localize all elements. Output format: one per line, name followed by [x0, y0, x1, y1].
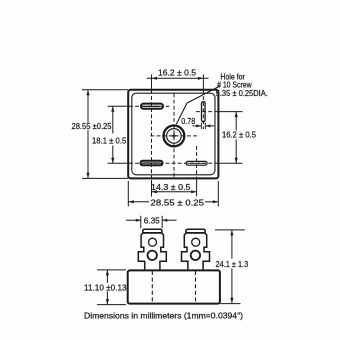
svg-text:28.55 ± 0.25: 28.55 ± 0.25: [151, 197, 205, 207]
terminal centerlines in body: [151, 271, 153, 303]
centerline horizontal hole: [151, 135, 200, 137]
dim left 18.1 line: [112, 106, 114, 163]
dim left 28.55 line: [82, 90, 128, 179]
labels side view: [84, 215, 249, 292]
dim 11.10: [97, 270, 126, 305]
svg-text:5.35 ± 0.25DIA.: 5.35 ± 0.25DIA.: [216, 89, 268, 98]
svg-text:0.78: 0.78: [181, 117, 195, 126]
mounting hole: [164, 125, 185, 146]
leader line to hole: [176, 86, 220, 125]
centerline vertical through bottom-right slot: [196, 146, 198, 197]
terminal slot bottom-left: [141, 161, 163, 166]
dim top 16.2 line: [147, 77, 209, 79]
dim right 16.2 line: [235, 112, 237, 164]
terminal slot bottom-right: [186, 161, 207, 165]
top 16.2 arrows: [152, 77, 158, 80]
centerline vertical through left terminals: [151, 75, 153, 197]
dim bottom 28.55 lines: [128, 181, 218, 207]
24.1 arrows: [230, 230, 233, 236]
terminal slot top-left: [141, 104, 163, 109]
terminal slot top-right (vertical): [202, 102, 206, 122]
11.10 arrows: [106, 270, 109, 276]
bottom 28.55 arrows: [128, 200, 134, 203]
svg-text:16.2 ± 0.5: 16.2 ± 0.5: [158, 67, 196, 77]
inner face edge: [132, 93, 215, 175]
6.35 arrows: [136, 219, 141, 222]
svg-text:Dimensions in millimeters (1mm: Dimensions in millimeters (1mm=0.0394″): [84, 311, 243, 321]
svg-text:11.10 ±0.13: 11.10 ±0.13: [84, 284, 127, 293]
terminal left (side view): [138, 229, 166, 270]
centerline vertical through AC slot: [202, 75, 204, 130]
svg-text:14.3 ± 0.5: 14.3 ± 0.5: [151, 182, 191, 192]
dim bottom 14.3 line: [152, 191, 197, 193]
dim 24.1: [215, 230, 245, 304]
terminal right (side view): [182, 229, 210, 270]
arrowheads: [86, 77, 237, 204]
dim 6.35: [126, 216, 177, 228]
centerline horizontal top-left slot: [108, 105, 171, 107]
svg-text:28.55 ±0.25: 28.55 ±0.25: [72, 122, 113, 131]
svg-text:18.1 ± 0.5: 18.1 ± 0.5: [92, 136, 127, 146]
svg-text:6.35: 6.35: [144, 215, 160, 225]
right 16.2 arrows: [235, 112, 238, 118]
body (side view): [128, 270, 220, 303]
left 28.55 arrows: [86, 90, 89, 96]
svg-text:16.2 ± 0.5: 16.2 ± 0.5: [222, 129, 256, 139]
centerline horizontal AC slot: [196, 111, 243, 113]
left 18.1 arrows: [111, 106, 114, 112]
labels top view: [72, 67, 268, 207]
svg-text:24.1 ± 1.3: 24.1 ± 1.3: [216, 259, 249, 269]
dim 0.78 arrows: [193, 123, 215, 130]
0.78 arrows: [196, 124, 201, 127]
package outline (top view): [128, 90, 218, 179]
centerline vertical through hole: [173, 94, 175, 177]
bottom 14.3 arrows: [152, 190, 158, 193]
centerline horizontal bottom slots: [108, 162, 243, 164]
